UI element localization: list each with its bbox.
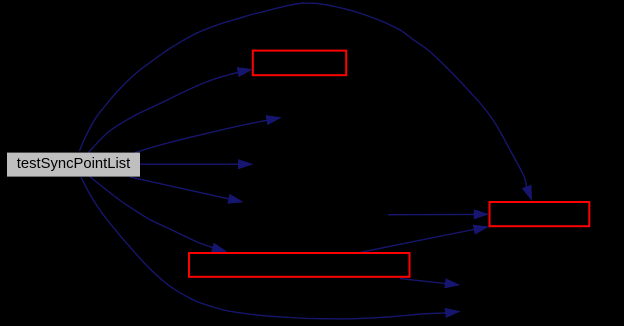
svg-text:testSyncPointList: testSyncPointList <box>17 156 131 172</box>
arrowhead E2 <box>237 67 253 77</box>
arrowhead E10 <box>444 278 460 288</box>
arrowhead E5 <box>227 194 243 204</box>
edge E8: bottom red node to right red node <box>360 229 474 252</box>
arrowhead E9 <box>474 209 490 219</box>
edge E5: testSyncPointList to hidden node 3 <box>130 177 228 199</box>
edge E6: testSyncPointList to bottom red node <box>90 177 213 248</box>
arrowhead E3 <box>266 115 282 125</box>
edge E2: testSyncPointList to top red node <box>88 72 238 153</box>
arrowhead E7 <box>445 308 461 318</box>
node: right red box <box>490 202 590 226</box>
arrowhead E1 <box>522 185 532 201</box>
edge E3: testSyncPointList to hidden node 1 <box>135 120 267 152</box>
node: top red box <box>253 51 346 76</box>
arrowhead E6 <box>211 243 227 253</box>
edge E9: hidden node 3 to right red node <box>388 213 474 215</box>
edge E1: testSyncPointList to right node (big top arc) <box>80 3 527 186</box>
arrowhead E8 <box>473 225 489 235</box>
arrowhead E4 <box>238 159 254 169</box>
node: bottom red box <box>189 253 410 277</box>
node testSyncPointList <box>7 153 140 177</box>
edge E10: bottom red node to hidden node 5 <box>400 279 446 284</box>
edge E7: testSyncPointList to hidden node 4 (bottom arc) <box>81 177 446 319</box>
edge E4: testSyncPointList to hidden node 2 <box>140 163 238 165</box>
